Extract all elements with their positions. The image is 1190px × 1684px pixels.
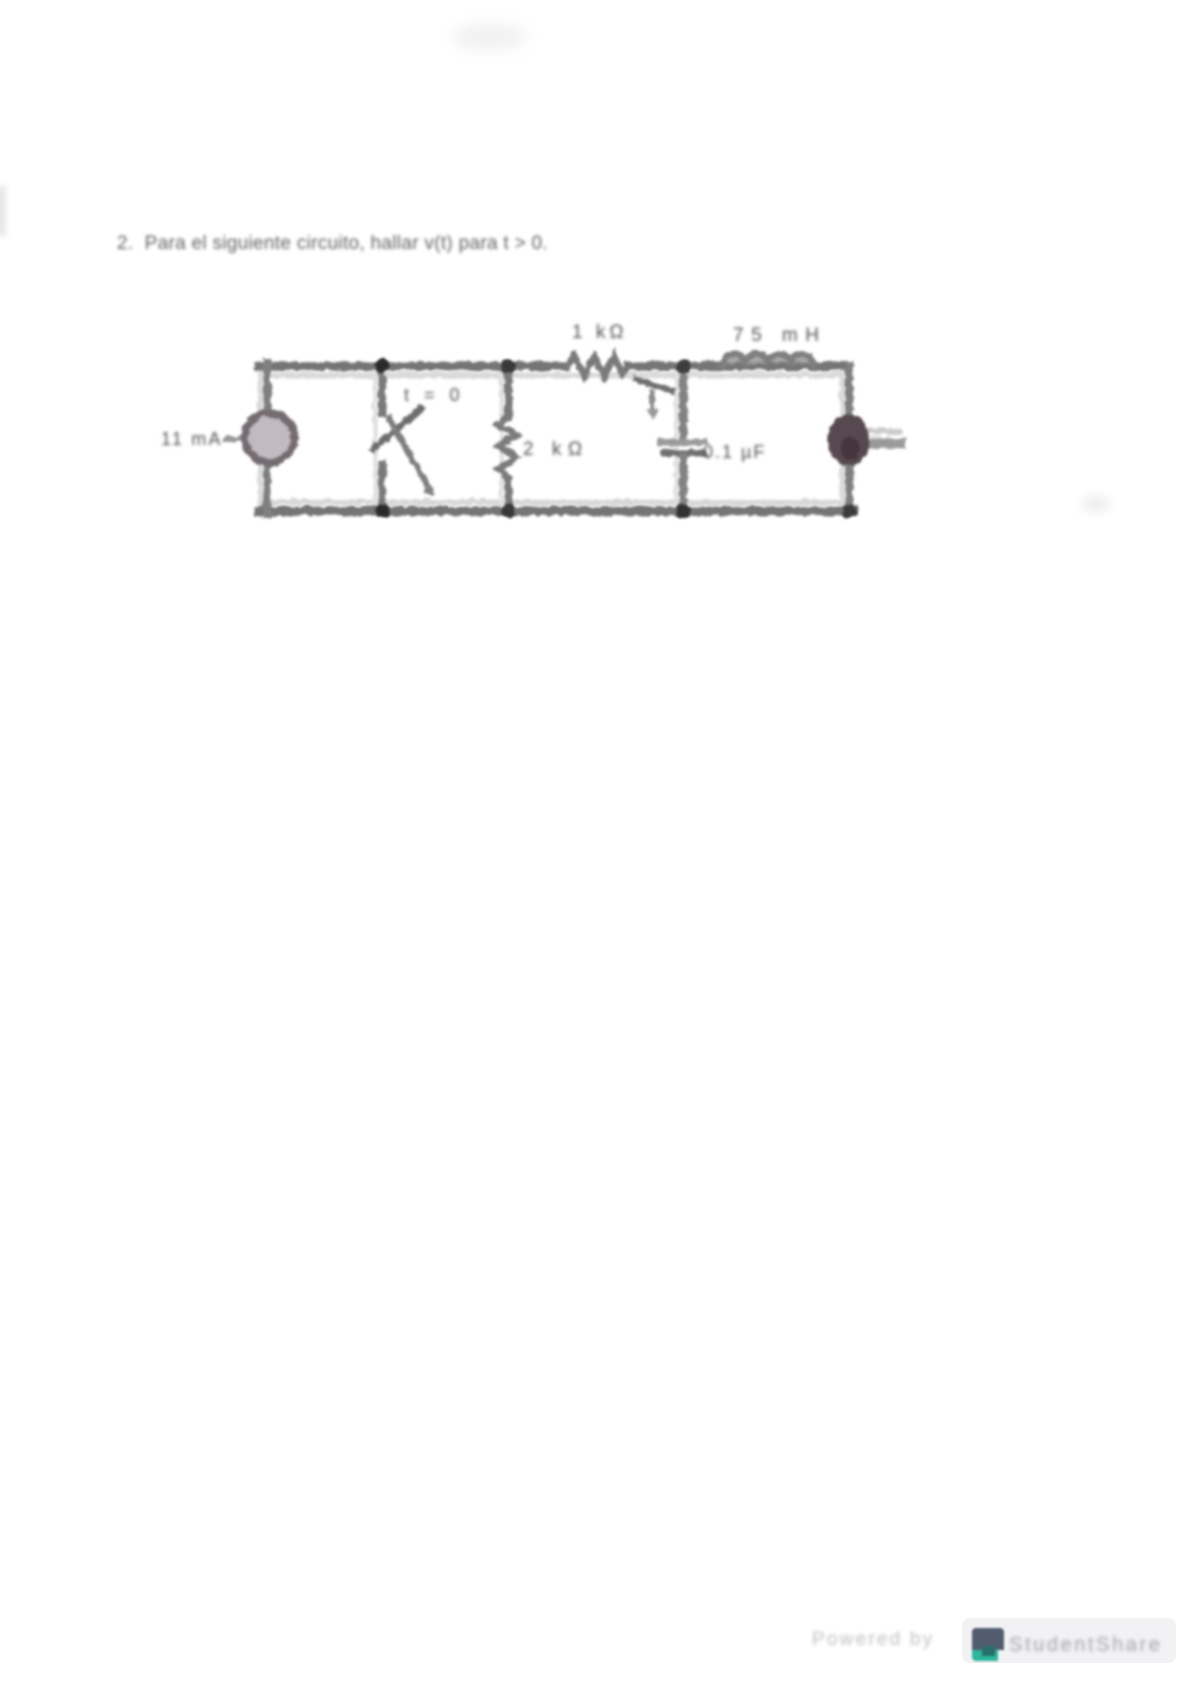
faint left-edge mark: [0, 186, 6, 236]
source V1 body: [826, 414, 868, 465]
svg-text:75 mH: 75 mH: [733, 325, 826, 346]
inductor L1 bumps: [721, 353, 812, 364]
wire fringe capacitor branch: [673, 367, 677, 509]
wire top right segment: [627, 361, 848, 370]
faint top-center smudge: [452, 24, 527, 50]
node top of R2 branch: [500, 358, 514, 372]
switch SW1 arrowhead: [421, 481, 434, 494]
svg-text:t = 0: t = 0: [404, 385, 465, 405]
svg-text:3V: 3V: [869, 433, 890, 452]
brand text: [1009, 1634, 1163, 1657]
wire switch branch upper: [377, 363, 385, 413]
wire bottom: [257, 506, 852, 515]
resistor R2 2kΩ zigzag (vertical): [497, 415, 515, 477]
powered by text: [812, 1629, 934, 1651]
source I1 lead stub: [224, 436, 243, 441]
svg-text:2 kΩ: 2 kΩ: [523, 439, 589, 460]
wire capacitor branch lower: [678, 456, 686, 512]
wire fringe left vertical: [257, 363, 262, 511]
wire right vertical: [844, 365, 852, 513]
capacitor C1 top plate: [659, 438, 703, 445]
current arrow into node A: [634, 378, 672, 390]
wire fringe right vertical: [839, 367, 844, 509]
switch SW1 blade: [372, 407, 420, 448]
svg-text:11 mA: 11 mA: [161, 429, 223, 449]
wire fringe above bottom wire: [260, 498, 848, 504]
footer band: [962, 1618, 1176, 1663]
wire R2 branch lower: [503, 477, 511, 512]
node bottom of R2 branch: [500, 503, 514, 517]
switch SW1 motion arrow: [388, 418, 428, 487]
resistor R1 1kΩ zigzag (top): [566, 355, 627, 375]
node bottom of capacitor branch: [675, 503, 690, 518]
inductor L1 band: [723, 353, 811, 363]
faint right mid smudge: [1082, 496, 1110, 512]
wire top left segment: [257, 361, 566, 370]
svg-text:1 kΩ: 1 kΩ: [572, 322, 628, 343]
capacitor C1 bottom plate: [663, 449, 703, 456]
source V1 lead stub: [866, 437, 900, 447]
wire fringe switch branch: [372, 367, 376, 509]
problem statement text: [117, 233, 548, 255]
wire left vertical: [262, 361, 270, 513]
logo square: [972, 1628, 1004, 1661]
wire fringe below top wire: [260, 371, 840, 377]
svg-text:0.1 µF: 0.1 µF: [703, 442, 766, 462]
node A top of capacitor branch: [675, 359, 690, 374]
wire capacitor branch upper: [678, 363, 686, 436]
wire fringe R2 branch: [498, 367, 502, 509]
node bottom of switch branch: [374, 503, 388, 517]
current source I1 circle: [244, 412, 293, 461]
wire switch branch lower: [377, 464, 385, 512]
node bottom right corner: [841, 504, 855, 518]
wire R2 branch upper: [503, 363, 511, 415]
node top of switch branch: [374, 358, 388, 372]
